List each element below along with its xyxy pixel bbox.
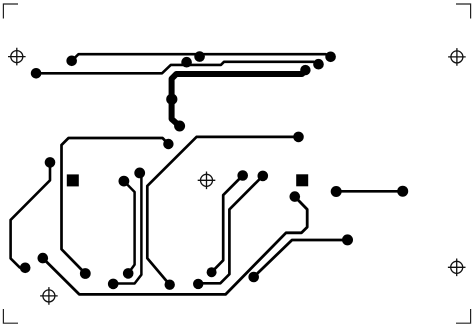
corner mark bottom-right [456,309,471,323]
pad P1 [31,68,42,79]
pad P18 [38,253,49,264]
wire right outline trace: pad P11 to pad P25 [147,137,298,285]
square pad SQ2 [296,174,308,186]
pad P11 [293,132,304,143]
wire thick power trace: pad P7 to pad P9 [172,71,306,126]
wire trace: pad P14 to pad P24 [198,176,263,283]
pad P29 [397,186,408,197]
wire bottom outline trace: pad P18 to pad P15 [43,197,307,295]
pad P27 [342,234,353,245]
fiducial crosshair bottom-right [448,259,466,277]
pad P15 [290,191,301,202]
wire trace top: pad P2 to pad P5 [72,54,331,61]
wire trace: pad P12 to pad P19 [11,162,50,267]
wire trace: pad P16 to pad P22 [113,173,141,284]
fiducial crosshair middle [198,172,216,190]
pad P6 [313,59,324,70]
fiducial crosshair top-right [448,48,466,66]
pad P24 [193,279,203,289]
pad P25 [165,280,175,290]
pad P4 [194,51,205,62]
wire trace: pad P17 to pad P21 [124,181,135,273]
pad P14 [258,171,269,182]
pad P10 [163,139,173,149]
wire isolated trace: pad P28 to pad P29 [336,190,402,193]
pad P5 [325,52,336,63]
pad P20 [80,268,91,279]
pad P21 [123,268,134,279]
square pad SQ1 [67,174,79,186]
pad P7 [300,65,310,75]
wire trace: pad P13 to pad P23 [212,176,243,273]
corner mark top-right [456,4,471,19]
pad P8 [166,94,177,105]
pad P9 [174,121,185,132]
pad P19 [20,263,31,274]
corner mark top-left [3,4,18,19]
pad P28 [331,186,342,197]
wire left outline trace: pad P10 to pad P20 [62,138,169,274]
wire trace second: pad P1 to pad P6 [36,62,318,74]
corner mark bottom-left [3,309,18,323]
pad P22 [108,279,119,290]
pad P3 [181,57,192,68]
pad P16 [134,168,145,179]
pad P13 [237,170,248,181]
wire trace: pad P26 to pad P27 [254,240,348,277]
pad P17 [119,176,130,187]
pad P2 [66,56,77,67]
pad P23 [207,267,217,277]
fiducial crosshair top-left [8,48,26,66]
pad P12 [45,157,56,168]
fiducial crosshair bottom-left [40,287,58,305]
pad P26 [248,272,259,283]
